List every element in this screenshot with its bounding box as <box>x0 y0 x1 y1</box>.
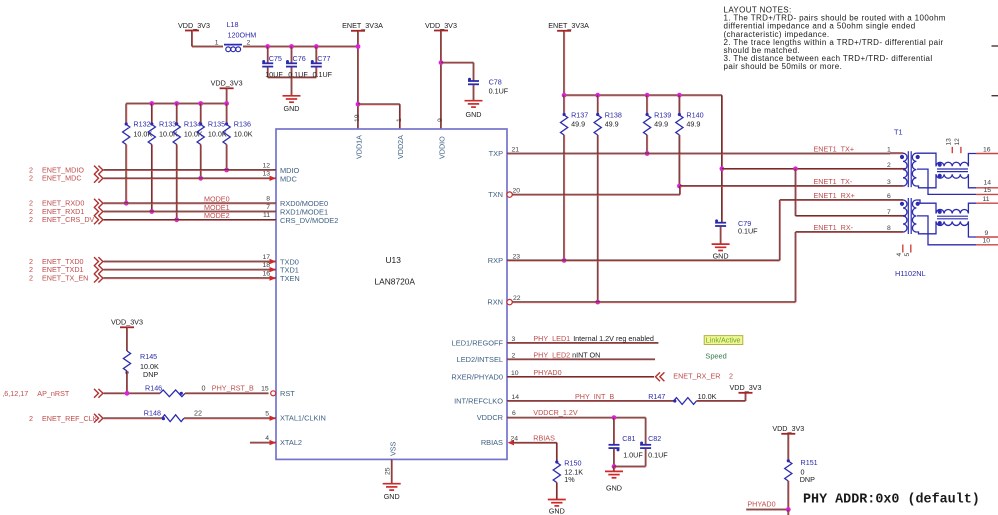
svg-text:2: 2 <box>887 162 891 169</box>
svg-text:3: 3 <box>887 179 891 186</box>
svg-text:TXP: TXP <box>489 149 503 158</box>
svg-text:13: 13 <box>262 171 270 178</box>
svg-text:1: 1 <box>396 118 403 122</box>
svg-text:GND: GND <box>384 492 400 501</box>
svg-text:PHY_LED2: PHY_LED2 <box>533 351 570 360</box>
svg-text:21: 21 <box>512 147 520 154</box>
svg-text:VDD_3V3: VDD_3V3 <box>425 21 457 30</box>
svg-text:120OHM: 120OHM <box>228 31 257 40</box>
svg-text:RBIAS: RBIAS <box>481 438 503 447</box>
svg-text:R150: R150 <box>564 459 581 468</box>
svg-text:R151: R151 <box>801 458 818 467</box>
svg-text:XTAL1/CLKIN: XTAL1/CLKIN <box>280 414 326 423</box>
svg-text:11: 11 <box>983 196 990 203</box>
svg-text:ENET_3V3A: ENET_3V3A <box>342 21 383 30</box>
svg-text:23: 23 <box>513 253 521 260</box>
svg-text:10.0K: 10.0K <box>234 129 253 138</box>
svg-text:R133: R133 <box>159 119 176 128</box>
svg-text:49.9: 49.9 <box>571 120 585 129</box>
svg-text:49.9: 49.9 <box>654 120 668 129</box>
svg-text:VDD_3V3: VDD_3V3 <box>211 79 243 88</box>
svg-text:0.1UF: 0.1UF <box>648 451 668 460</box>
svg-text:INT/REFCLKO: INT/REFCLKO <box>454 397 503 406</box>
svg-text:R132: R132 <box>133 119 150 128</box>
svg-text:GND: GND <box>284 104 300 113</box>
svg-text:MDC: MDC <box>280 174 297 183</box>
svg-text:ENET_CRS_DV: ENET_CRS_DV <box>42 215 95 224</box>
svg-text:T1: T1 <box>894 128 903 137</box>
svg-text:16: 16 <box>983 147 991 154</box>
svg-text:TXN: TXN <box>488 190 503 199</box>
svg-text:14: 14 <box>512 394 520 401</box>
svg-text:4: 4 <box>265 435 269 442</box>
svg-text:H1102NL: H1102NL <box>895 269 926 278</box>
svg-text:RBIAS: RBIAS <box>533 433 555 442</box>
svg-text:19: 19 <box>354 114 361 122</box>
svg-text:0.1UF: 0.1UF <box>489 86 509 95</box>
svg-text:U13: U13 <box>386 255 402 265</box>
svg-text:14: 14 <box>984 179 992 186</box>
svg-text:RST: RST <box>280 389 295 398</box>
svg-text:CRS_DV/MODE2: CRS_DV/MODE2 <box>280 216 338 225</box>
svg-text:R137: R137 <box>571 111 588 120</box>
svg-text:7: 7 <box>887 209 891 216</box>
svg-text:22: 22 <box>194 409 202 418</box>
svg-text:C75: C75 <box>269 54 282 63</box>
svg-text:6: 6 <box>887 193 891 200</box>
svg-text:VDD_3V3: VDD_3V3 <box>178 21 210 30</box>
svg-text:GND: GND <box>549 507 565 515</box>
svg-text:XTAL2: XTAL2 <box>280 438 302 447</box>
svg-text:nINT ON: nINT ON <box>572 351 600 360</box>
svg-text:2: 2 <box>512 352 516 359</box>
svg-text:VSS: VSS <box>388 441 397 456</box>
svg-text:13: 13 <box>946 138 953 146</box>
svg-text:VDD_3V3: VDD_3V3 <box>730 383 762 392</box>
svg-text:22: 22 <box>513 295 521 302</box>
svg-text:8: 8 <box>887 225 891 232</box>
svg-text:Link/Active: Link/Active <box>706 336 741 345</box>
svg-text:R134: R134 <box>184 119 201 128</box>
svg-text:24: 24 <box>511 435 519 442</box>
svg-text:R148: R148 <box>144 409 161 418</box>
svg-text:PHY_INT_B: PHY_INT_B <box>575 392 614 401</box>
svg-text:ENET_REF_CLK: ENET_REF_CLK <box>42 414 98 423</box>
svg-text:R135: R135 <box>208 119 225 128</box>
svg-text:PHY ADDR:0x0 (default): PHY ADDR:0x0 (default) <box>803 493 980 508</box>
svg-text:RXP: RXP <box>488 256 503 265</box>
svg-text:18: 18 <box>262 262 270 269</box>
svg-text:GND: GND <box>466 110 482 119</box>
svg-text:4: 4 <box>896 253 903 257</box>
svg-text:C77: C77 <box>317 54 330 63</box>
svg-text:Speed: Speed <box>705 352 726 361</box>
svg-text:1: 1 <box>215 40 219 47</box>
svg-text:VDD_3V3: VDD_3V3 <box>772 424 804 433</box>
svg-text:C76: C76 <box>293 54 306 63</box>
svg-text:ENET_3V3A: ENET_3V3A <box>548 21 589 30</box>
svg-text:0.1UF: 0.1UF <box>738 226 758 235</box>
svg-text:9: 9 <box>437 118 444 122</box>
svg-text:MODE2: MODE2 <box>204 211 230 220</box>
svg-text:R146: R146 <box>145 383 162 392</box>
svg-text:2: 2 <box>247 40 251 47</box>
svg-text:L18: L18 <box>227 20 239 29</box>
svg-text:R147: R147 <box>648 392 665 401</box>
svg-text:2: 2 <box>29 215 33 224</box>
svg-text:LAN8720A: LAN8720A <box>375 277 416 287</box>
svg-text:9: 9 <box>985 230 989 237</box>
svg-text:6: 6 <box>512 410 516 417</box>
svg-text:R139: R139 <box>654 111 671 120</box>
svg-text:ENET1_RX-: ENET1_RX- <box>814 223 854 232</box>
svg-text:11: 11 <box>263 212 270 219</box>
svg-text:AP_nRST: AP_nRST <box>37 389 70 398</box>
svg-text:ENET1_RX+: ENET1_RX+ <box>814 191 855 200</box>
svg-text:16: 16 <box>262 271 270 278</box>
svg-text:PHYAD0: PHYAD0 <box>533 368 561 377</box>
svg-text:RXN: RXN <box>487 298 503 307</box>
svg-text:12: 12 <box>954 138 961 146</box>
svg-text:ENET_RX_ER: ENET_RX_ER <box>673 371 720 380</box>
svg-text:C78: C78 <box>489 77 502 86</box>
svg-text:0: 0 <box>202 383 206 392</box>
svg-text:VDD_3V3: VDD_3V3 <box>111 318 143 327</box>
svg-text:RXER/PHYAD0: RXER/PHYAD0 <box>451 372 503 381</box>
svg-text:12: 12 <box>262 162 270 169</box>
svg-text:7: 7 <box>266 204 270 211</box>
svg-text:PHY_LED1: PHY_LED1 <box>533 334 570 343</box>
svg-text:TXEN: TXEN <box>280 274 300 283</box>
svg-text:LED1/REGOFF: LED1/REGOFF <box>452 339 504 348</box>
svg-text:25: 25 <box>385 467 392 475</box>
svg-text:5: 5 <box>904 253 911 257</box>
svg-text:VDDCR: VDDCR <box>477 413 503 422</box>
svg-text:ENET_MDC: ENET_MDC <box>42 174 82 183</box>
svg-text:49.9: 49.9 <box>686 120 700 129</box>
svg-text:R145: R145 <box>140 352 157 361</box>
svg-text:15: 15 <box>261 385 269 392</box>
svg-text:3: 3 <box>512 336 516 343</box>
svg-text:,6,12,17: ,6,12,17 <box>2 389 28 398</box>
svg-text:VDDIO: VDDIO <box>437 136 446 159</box>
svg-text:GND: GND <box>713 251 729 260</box>
svg-text:10.0K: 10.0K <box>698 392 717 401</box>
svg-text:VDDCR_1.2V: VDDCR_1.2V <box>533 408 578 417</box>
svg-text:2: 2 <box>29 174 33 183</box>
svg-text:ENET1_TX+: ENET1_TX+ <box>814 145 855 154</box>
svg-text:DNP: DNP <box>800 475 815 484</box>
svg-text:10: 10 <box>983 238 991 245</box>
svg-text:15: 15 <box>984 187 992 194</box>
svg-text:1.0UF: 1.0UF <box>623 451 643 460</box>
svg-text:Internal 1.2V reg enabled: Internal 1.2V reg enabled <box>573 334 654 343</box>
svg-text:5: 5 <box>265 411 269 418</box>
svg-text:C81: C81 <box>622 434 635 443</box>
svg-text:PHYAD0: PHYAD0 <box>747 499 775 508</box>
svg-text:2: 2 <box>729 371 733 380</box>
svg-text:GND: GND <box>606 483 622 492</box>
svg-text:10: 10 <box>511 370 519 377</box>
svg-text:ENET_TX_EN: ENET_TX_EN <box>42 274 88 283</box>
svg-text:C82: C82 <box>648 434 661 443</box>
svg-text:1%: 1% <box>564 475 575 484</box>
svg-text:2: 2 <box>29 274 33 283</box>
svg-text:VDD2A: VDD2A <box>396 135 405 159</box>
svg-text:17: 17 <box>262 254 270 261</box>
svg-text:R136: R136 <box>234 119 251 128</box>
svg-text:R140: R140 <box>686 111 703 120</box>
svg-text:20: 20 <box>513 188 521 195</box>
svg-text:2: 2 <box>29 414 33 423</box>
svg-text:DNP: DNP <box>143 370 158 379</box>
svg-text:ENET1_TX-: ENET1_TX- <box>814 177 853 186</box>
svg-text:R138: R138 <box>605 111 622 120</box>
svg-text:49.9: 49.9 <box>605 120 619 129</box>
svg-text:PHY_RST_B: PHY_RST_B <box>212 384 254 393</box>
svg-text:VDD1A: VDD1A <box>354 135 363 159</box>
svg-text:8: 8 <box>266 196 270 203</box>
svg-text:pair should be 50mils or more.: pair should be 50mils or more. <box>724 62 843 71</box>
svg-text:LED2/INTSEL: LED2/INTSEL <box>457 355 503 364</box>
